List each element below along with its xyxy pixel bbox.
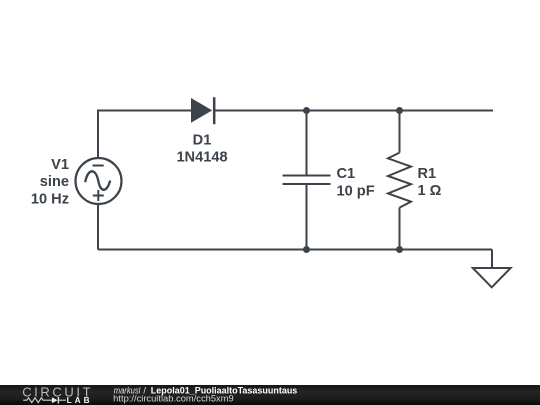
- logo resistor squiggle: [23, 398, 52, 403]
- node junction top capacitor: [303, 107, 310, 114]
- wire resistor bottom lead: [399, 208, 401, 250]
- wire bottom rail: [98, 249, 492, 251]
- wire top rail right (diode to end): [214, 110, 493, 112]
- svg-text:http://circuitlab.com/cch5xm9: http://circuitlab.com/cch5xm9: [113, 394, 234, 404]
- svg-text:1 Ω: 1 Ω: [418, 183, 442, 199]
- node junction bottom capacitor: [303, 246, 310, 253]
- svg-text:R1: R1: [418, 166, 437, 182]
- voltage source V1: [76, 158, 122, 204]
- logo diode symbol: [52, 397, 66, 403]
- svg-text:C1: C1: [337, 166, 356, 182]
- wire V1 bottom lead: [97, 204, 99, 250]
- diode D1: [191, 97, 214, 124]
- node junction top resistor: [396, 107, 403, 114]
- wire capacitor top lead: [306, 111, 308, 176]
- svg-text:1N4148: 1N4148: [176, 150, 227, 166]
- ground: [473, 268, 511, 287]
- svg-text:10 Hz: 10 Hz: [31, 191, 69, 207]
- svg-text:sine: sine: [40, 174, 69, 190]
- wire ground lead: [491, 250, 493, 269]
- footer bar: [0, 385, 540, 405]
- wire top rail left (V1 to diode): [98, 110, 192, 112]
- resistor R1: [388, 153, 411, 208]
- wire resistor top lead: [399, 111, 401, 153]
- svg-text:LAB: LAB: [67, 395, 93, 405]
- svg-text:D1: D1: [193, 132, 212, 148]
- wire capacitor bottom lead: [306, 184, 308, 250]
- svg-text:V1: V1: [51, 157, 69, 173]
- svg-text:10 pF: 10 pF: [337, 183, 375, 199]
- node junction bottom resistor: [396, 246, 403, 253]
- wire V1 top lead: [97, 110, 99, 159]
- capacitor C1: [283, 176, 331, 185]
